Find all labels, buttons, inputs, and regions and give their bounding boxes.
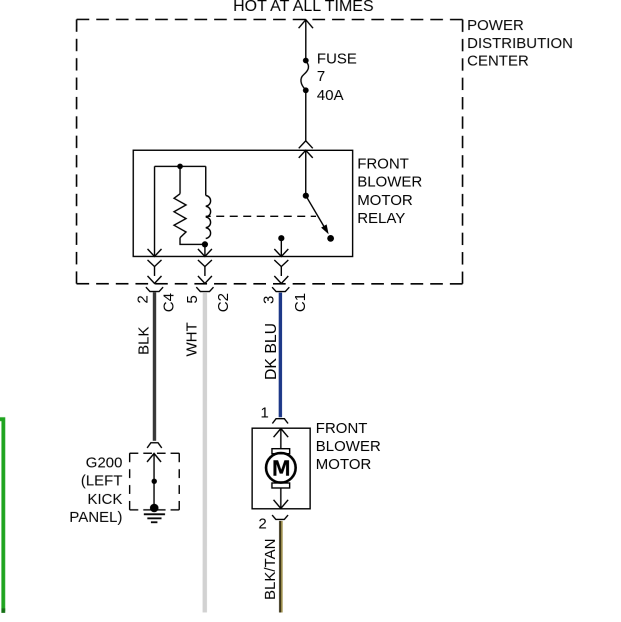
switch common contact node — [278, 235, 284, 241]
wire from fuse to relay — [299, 90, 313, 148]
svg-text:DK BLU: DK BLU — [263, 323, 280, 380]
ground G200 connector bracket — [147, 443, 162, 448]
motor armature circle — [266, 453, 296, 483]
svg-text:FUSE: FUSE — [317, 50, 357, 67]
power distribution center dashed box — [77, 19, 463, 283]
switch NO contact node — [327, 235, 334, 242]
relay coil top junction node — [177, 164, 183, 170]
svg-text:FRONT: FRONT — [357, 155, 409, 172]
wire from relay top to switch pivot — [305, 150, 307, 195]
svg-text:2: 2 — [135, 295, 152, 303]
svg-text:(LEFT: (LEFT — [81, 473, 123, 490]
G200 entry arrow — [147, 453, 161, 462]
wire WHT from C2 — [203, 292, 208, 612]
motor entry arrow — [274, 428, 289, 448]
svg-text:G200: G200 — [86, 454, 123, 471]
motor label — [316, 420, 381, 473]
svg-text:PANEL): PANEL) — [69, 509, 122, 526]
svg-text:BLK/TAN: BLK/TAN — [262, 539, 279, 600]
svg-text:C4: C4 — [160, 293, 177, 312]
motor pin 1 connector bracket — [272, 419, 288, 424]
svg-text:2: 2 — [258, 515, 266, 532]
motor top brush — [272, 449, 290, 454]
wire coil junction to pin 5 — [198, 244, 212, 256]
svg-text:MOTOR: MOTOR — [357, 192, 413, 209]
wire BLK/TAN from motor pin 2 — [279, 521, 283, 613]
pin 3 exit chevrons — [272, 260, 289, 292]
svg-text:C2: C2 — [215, 293, 232, 312]
dashed actuation link — [206, 215, 316, 217]
svg-text:BLOWER: BLOWER — [316, 438, 381, 455]
svg-text:POWER: POWER — [467, 17, 524, 34]
relay K1 box FRONT BLOWER MOTOR RELAY — [133, 150, 352, 256]
G200 splice node — [152, 479, 157, 484]
svg-text:WHT: WHT — [183, 322, 200, 356]
switch pivot node — [303, 193, 309, 199]
motor M letter — [273, 460, 289, 476]
relay label — [357, 155, 422, 227]
svg-text:MOTOR: MOTOR — [316, 456, 372, 473]
wire BLK from C4 to G200 — [153, 292, 156, 441]
power distribution center label — [467, 17, 573, 69]
G200 label — [69, 454, 122, 526]
svg-text:3: 3 — [261, 296, 278, 304]
G200 internal wire — [153, 453, 155, 509]
svg-text:40A: 40A — [317, 87, 344, 104]
wire resistor bottom to junction — [180, 238, 205, 245]
relay pin 30 entry arrow — [299, 150, 313, 158]
coil bottom junction node — [202, 241, 208, 247]
svg-text:KICK: KICK — [87, 491, 122, 508]
pin 5 exit chevrons — [196, 260, 213, 292]
ground symbol — [144, 514, 165, 522]
svg-text:7: 7 — [317, 68, 325, 85]
fuse label — [317, 50, 357, 104]
svg-text:FRONT: FRONT — [316, 420, 368, 437]
wire coil top bus — [155, 165, 206, 167]
relay coil winding — [206, 195, 211, 238]
svg-text:BLOWER: BLOWER — [357, 174, 422, 191]
ground G200 dashed box — [130, 453, 180, 510]
svg-text:DISTRIBUTION: DISTRIBUTION — [467, 35, 573, 52]
svg-text:C1: C1 — [292, 293, 309, 312]
node ground distribution green wire — [0, 419, 5, 613]
pin 2 exit chevrons — [146, 260, 163, 292]
svg-text:RELAY: RELAY — [357, 210, 405, 227]
motor bottom brush — [272, 483, 290, 488]
fuse 7 40A symbol — [301, 58, 309, 94]
svg-text:BLK: BLK — [135, 327, 152, 355]
svg-text:1: 1 — [260, 404, 268, 421]
wire junction to coil — [205, 166, 207, 195]
relay switch blade — [306, 196, 329, 235]
G200 ground node — [150, 504, 159, 513]
wire from hot feed into fuse — [299, 20, 313, 61]
blower motor M1 box — [252, 428, 310, 509]
svg-text:CENTER: CENTER — [467, 53, 529, 70]
wire from common contact to pin 3 — [274, 238, 288, 256]
svg-text:HOT AT ALL TIMES: HOT AT ALL TIMES — [233, 0, 374, 15]
wire junction to resistor — [179, 166, 181, 193]
svg-text:5: 5 — [184, 295, 201, 303]
resistor (relay coil suppression) — [174, 194, 186, 238]
motor exit arrow — [274, 488, 289, 509]
motor pin 2 connector bracket — [272, 515, 288, 519]
wire DK BLU from C1 to blower motor — [279, 293, 282, 418]
wire left branch to pin 2 — [148, 166, 162, 256]
